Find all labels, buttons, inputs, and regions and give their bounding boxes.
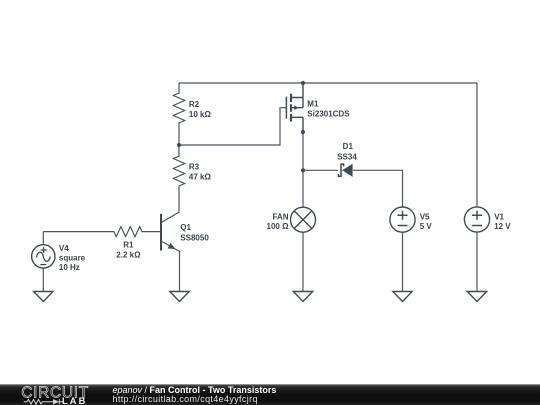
svg-text:100 Ω: 100 Ω: [267, 222, 290, 231]
svg-text:LAB: LAB: [62, 396, 87, 405]
svg-text:2.2 kΩ: 2.2 kΩ: [116, 251, 141, 260]
svg-text:M1: M1: [307, 100, 319, 109]
svg-text:square: square: [59, 253, 86, 262]
svg-text:47 kΩ: 47 kΩ: [189, 172, 212, 181]
svg-text:SS34: SS34: [337, 153, 357, 162]
svg-text:R2: R2: [189, 100, 200, 109]
svg-text:10 Hz: 10 Hz: [59, 263, 80, 272]
svg-text:Q1: Q1: [180, 223, 191, 232]
svg-text:5 V: 5 V: [420, 222, 433, 231]
svg-text:10 kΩ: 10 kΩ: [189, 110, 212, 119]
svg-text:D1: D1: [343, 142, 354, 151]
svg-text:R3: R3: [189, 162, 200, 171]
svg-text:Si2301CDS: Si2301CDS: [307, 110, 350, 119]
svg-text:R1: R1: [123, 241, 134, 250]
svg-text:V1: V1: [494, 212, 504, 221]
svg-text:V5: V5: [420, 212, 430, 221]
svg-text:12 V: 12 V: [494, 222, 511, 231]
svg-text:V4: V4: [59, 244, 69, 253]
svg-text:FAN: FAN: [273, 212, 289, 221]
svg-text:SS8050: SS8050: [180, 234, 209, 243]
